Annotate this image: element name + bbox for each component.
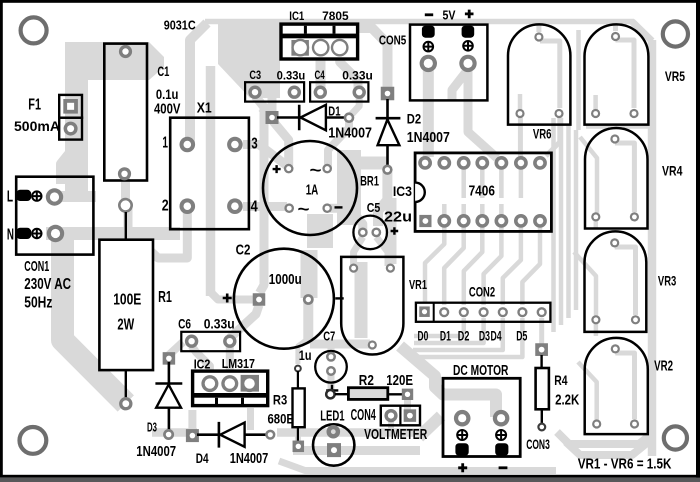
mounting hole top-left: [21, 17, 47, 43]
wire IC2 pad2 to C6 right: [226, 344, 234, 380]
wire VR2 internal left: [578, 362, 597, 420]
wire link to D2 ring: [355, 157, 387, 170]
svg-text:1: 1: [162, 135, 168, 152]
wire IC1 pad3 to C4 right: [340, 50, 358, 92]
svg-text:D4: D4: [196, 450, 209, 466]
potentiometer VR1 (inverted): [341, 257, 427, 355]
wire top bus corner to right vertical bus: [632, 22, 652, 42]
svg-text:22u: 22u: [384, 209, 412, 226]
svg-text:VR3: VR3: [658, 273, 677, 288]
connector CON5: [379, 7, 488, 100]
svg-text:9031C: 9031C: [164, 19, 196, 33]
diode D1 1N4007: [266, 104, 373, 142]
potentiometer VR3: [585, 231, 677, 332]
wire into DC MOTOR: [400, 346, 496, 417]
wire C7 top pad: [328, 344, 335, 357]
capacitor C5 22u: [353, 200, 412, 249]
svg-text:~: ~: [310, 161, 322, 180]
wire C1 junction to R1: [125, 212, 127, 242]
wire IC3 to CON2 D1: [444, 226, 464, 305]
wire inside VR4: [615, 143, 635, 212]
svg-text:D4: D4: [491, 328, 502, 343]
svg-text:X1: X1: [197, 101, 212, 117]
wire pour right of BR1: [337, 150, 361, 225]
wire C2 + left stub: [211, 292, 255, 300]
wire D1 ring to BR1 ~: [328, 121, 349, 168]
wire IC3 to CON2 D3: [484, 226, 502, 305]
wire VR4 internal left: [580, 137, 597, 213]
potentiometer VR5: [585, 24, 686, 124]
wire F1 bottom pad to CON1 L: [61, 128, 71, 184]
wire bus R3-LED row: [293, 446, 420, 455]
connector CON2: [416, 285, 551, 344]
resistor R3 680E: [268, 366, 305, 452]
svg-text:VOLTMETER: VOLTMETER: [364, 426, 427, 443]
svg-text:500mA: 500mA: [14, 118, 60, 134]
wire IC2 pad1 to C6: [192, 346, 210, 380]
svg-text:C6: C6: [178, 315, 191, 331]
wire VR6 top pad to bus: [536, 22, 541, 32]
wire IC1 right to D2 pad: [359, 28, 388, 94]
svg-text:680E: 680E: [268, 410, 295, 426]
svg-text:D3: D3: [147, 420, 157, 435]
svg-text:7406: 7406: [469, 184, 495, 200]
potentiometer VR6: [508, 24, 570, 141]
wire VR6 right pad to IC3: [546, 116, 560, 156]
wire IC3 to CON2 D2: [464, 226, 483, 305]
svg-text:R3: R3: [273, 392, 287, 408]
wire to C2 ring pad: [301, 250, 318, 298]
capacitor C4: [310, 68, 373, 102]
svg-text:VR1 - VR6 = 1.5K: VR1 - VR6 = 1.5K: [578, 457, 672, 473]
svg-text:~: ~: [298, 200, 310, 219]
svg-text:LM317: LM317: [222, 356, 255, 371]
wire gap VR5-VR4: [586, 125, 648, 129]
svg-text:VR6: VR6: [533, 126, 552, 141]
wire IC3 to CON2 D0: [425, 226, 444, 303]
svg-text:F1: F1: [28, 97, 41, 114]
svg-text:CON1: CON1: [24, 258, 49, 275]
svg-text:CON2: CON2: [469, 285, 495, 300]
wire R3 lower lead pour: [295, 428, 301, 442]
svg-text:D2: D2: [458, 328, 470, 343]
wire F1 top pad to pour: [65, 78, 76, 104]
transformer X1: [162, 101, 258, 230]
svg-text:5V: 5V: [443, 7, 456, 22]
svg-text:1N4007: 1N4007: [230, 450, 269, 467]
wire top horizontal bus: [205, 19, 634, 25]
wire IC2 down to bus: [247, 408, 254, 430]
wire X1 pad3 to BR1 +: [243, 145, 289, 168]
wire BR1 - to C5: [330, 208, 363, 232]
potentiometer VR2: [585, 338, 673, 434]
capacitor C3: [245, 68, 305, 102]
IC U-IC3 7406: [393, 153, 552, 232]
wire inside VR6: [540, 41, 560, 108]
bridge rectifier BR1: [263, 141, 379, 235]
wire D1 pad up: [268, 96, 277, 112]
wire BR1 + up to C3: [262, 108, 289, 166]
svg-text:IC1: IC1: [289, 9, 304, 23]
wire right of C5 to VR1 pad: [386, 198, 397, 264]
svg-text:7805: 7805: [322, 9, 349, 23]
wire diagonal left of DC MOTOR: [419, 416, 441, 437]
wire IC3 to CON2 D5: [522, 226, 540, 305]
potentiometer VR4: [585, 128, 683, 229]
wire pour left of IC1: [218, 24, 280, 98]
wire VR5 internal left stub: [593, 95, 598, 112]
svg-text:1N4007: 1N4007: [328, 125, 372, 142]
svg-text:1u: 1u: [299, 347, 312, 363]
wire IC2 to D4 pad: [188, 410, 196, 430]
connector CON1 230V: [7, 177, 93, 312]
wire loop under VR2 (inner): [557, 432, 650, 444]
svg-text:1N4007: 1N4007: [407, 129, 450, 146]
wire bus D3-D4-LED row: [152, 428, 197, 437]
svg-text:R1: R1: [158, 289, 172, 306]
wire CON1 N down to R1 bottom ring: [63, 234, 126, 404]
svg-text:VR5: VR5: [665, 68, 685, 84]
wire inside VR5: [616, 40, 635, 108]
svg-text:1A: 1A: [306, 182, 319, 199]
wire BR1 - down: [307, 214, 333, 248]
wire X1 pad1 up to top bus: [190, 23, 207, 145]
svg-text:230V AC: 230V AC: [24, 276, 71, 293]
svg-text:3: 3: [251, 135, 257, 152]
capacitor C2 1000u: [223, 241, 344, 348]
connector DC MOTOR: [443, 363, 520, 473]
wire IC3 to CON2 D4: [503, 226, 521, 305]
svg-text:2.2K: 2.2K: [555, 391, 579, 408]
wire C6 left pad to D3: [169, 342, 183, 355]
capacitor C1: [104, 44, 180, 181]
svg-text:DC MOTOR: DC MOTOR: [453, 363, 509, 379]
wire R3 ring up: [298, 340, 306, 364]
svg-text:2: 2: [162, 198, 169, 215]
wire CON2 pads down-left bundle: [414, 318, 464, 336]
capacitor C6 0.33u: [178, 315, 240, 351]
wire pour top-left (C1 top to CON1): [65, 42, 164, 196]
svg-text:D2: D2: [407, 111, 422, 127]
regulator IC2 LM317: [193, 356, 268, 406]
svg-text:1N4007: 1N4007: [136, 443, 176, 460]
wire VR5 top pad to bus: [613, 22, 618, 31]
diode D2 1N4007: [376, 87, 450, 175]
svg-text:4: 4: [251, 199, 258, 216]
wire CON5 right pad to IC3: [468, 68, 497, 158]
wire CON1 N horizontal band: [46, 227, 180, 240]
resistor R1 100E 2W: [99, 240, 172, 411]
wire C4 right pad to D1 ring: [350, 96, 359, 116]
svg-text:C1: C1: [157, 64, 169, 79]
svg-text:D1: D1: [440, 328, 451, 343]
wire IC1 pad1 to pour: [281, 43, 298, 52]
wire VR6 pad to IC3: [518, 116, 523, 158]
svg-text:L: L: [7, 188, 13, 205]
svg-text:D0: D0: [418, 328, 429, 343]
wire X1 pad4 to BR1 ~: [243, 202, 287, 211]
mounting hole top-right: [663, 21, 688, 46]
wire right vertical bus: [648, 40, 657, 456]
op-amp / regulator IC1 7805: [281, 9, 358, 59]
wire C1 bottom pad to junction ring: [121, 171, 130, 207]
svg-text:D5: D5: [516, 328, 527, 343]
wire inside VR2: [615, 353, 634, 419]
svg-text:N: N: [7, 227, 14, 244]
wire VR4 bottom pad stub: [594, 221, 599, 229]
diode D4 1N4007: [186, 422, 276, 467]
svg-text:C3: C3: [249, 68, 261, 82]
resistor R2 120E: [326, 373, 413, 400]
svg-text:50Hz: 50Hz: [24, 294, 52, 311]
svg-text:C5: C5: [367, 200, 381, 215]
wire inside VR1: [355, 262, 368, 338]
wire loop under VR2 (outer): [566, 442, 648, 455]
svg-text:D3: D3: [479, 328, 490, 343]
wire IC3 internal stubs: [464, 168, 521, 198]
svg-text:1000u: 1000u: [269, 271, 302, 288]
svg-text:0.33u: 0.33u: [204, 315, 235, 331]
svg-text:CON5: CON5: [379, 34, 406, 48]
wire R2 square pad to CON4: [404, 399, 411, 410]
wire VR3 internal left: [574, 252, 596, 316]
svg-text:400V: 400V: [154, 101, 181, 118]
wire to VR1 bottom pad: [310, 340, 370, 349]
wire VR6 internal left stub: [518, 94, 523, 112]
svg-text:C4: C4: [315, 68, 325, 82]
mounting hole bottom-right: [664, 426, 687, 449]
wire C2 ring down: [303, 302, 313, 344]
svg-text:2W: 2W: [117, 317, 134, 334]
wire CON5 left pad to IC3 pin: [423, 68, 434, 157]
svg-text:100E: 100E: [113, 291, 141, 308]
wire C5 to VR1 pads: [354, 237, 363, 266]
diode D3 1N4007: [136, 352, 182, 460]
wire CON1 L pad to pour: [50, 191, 96, 202]
wire CON2 D5 pad down to R4: [539, 318, 544, 345]
svg-text:C2: C2: [236, 241, 251, 258]
wire VR3 bottom pad stub: [594, 324, 599, 336]
capacitor C7 1u: [299, 329, 347, 383]
LED1: [313, 408, 354, 466]
svg-text:C7: C7: [323, 329, 335, 344]
connector CON4 voltmeter: [351, 406, 428, 443]
svg-text:LED1: LED1: [320, 408, 344, 425]
svg-text:CON4: CON4: [351, 407, 376, 424]
wire D2 ring down to C5: [378, 172, 387, 226]
svg-text:BR1: BR1: [360, 172, 379, 188]
svg-text:VR4: VR4: [662, 162, 683, 178]
svg-text:D1: D1: [328, 104, 341, 119]
svg-text:R4: R4: [554, 372, 567, 388]
svg-text:VR2: VR2: [654, 358, 673, 374]
svg-text:120E: 120E: [386, 373, 413, 389]
wire through X1: [206, 66, 216, 296]
node C1/R1 junction: [119, 199, 131, 211]
wire CON4 left pad down: [388, 420, 394, 431]
wire bundle right of IC3: [551, 118, 556, 332]
wire C3 left pad down to C2 +: [255, 96, 264, 293]
wire inside CON5: [452, 72, 466, 100]
wire between VR6 and VR5: [576, 30, 581, 130]
wire X1 pad2 stub: [128, 208, 187, 258]
fuse F1: [14, 95, 82, 140]
svg-text:IC3: IC3: [393, 183, 412, 199]
resistor R4 2.2K: [535, 343, 579, 430]
wire bottom bus: [279, 461, 556, 471]
wire C7 bottom to R2 ring: [328, 372, 335, 396]
svg-text:VR1: VR1: [409, 277, 427, 292]
svg-text:0.33u: 0.33u: [342, 68, 373, 82]
wire IC1 pad2 to C4: [316, 50, 326, 92]
svg-text:0.33u: 0.33u: [277, 68, 306, 82]
wire C6 right pad up to C2 +: [230, 305, 259, 338]
svg-text:CON3: CON3: [526, 436, 550, 452]
mounting hole bottom-left: [20, 427, 47, 454]
wire inside VR3: [615, 247, 636, 315]
